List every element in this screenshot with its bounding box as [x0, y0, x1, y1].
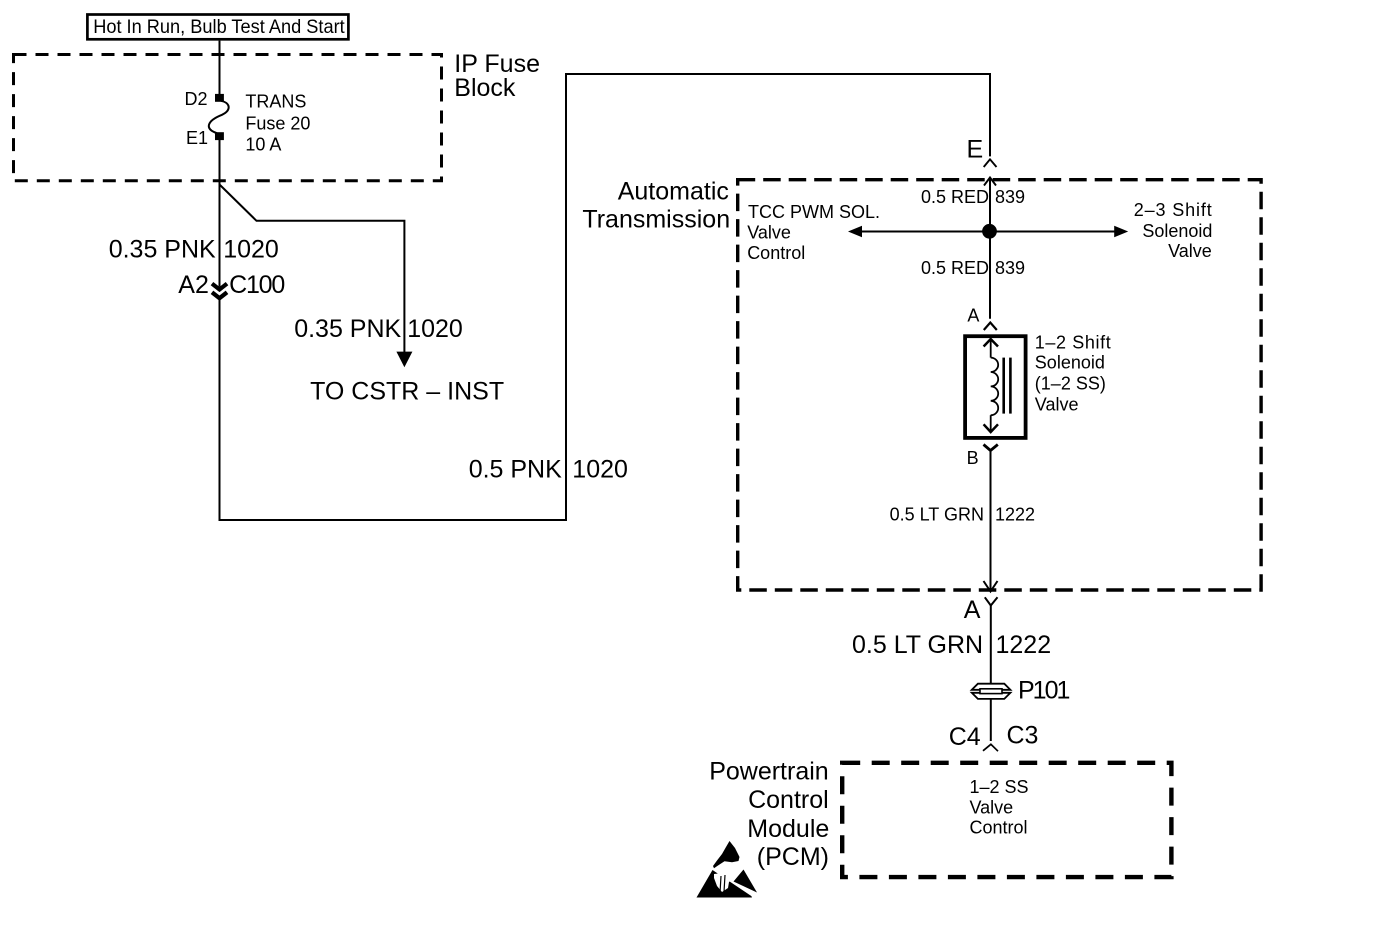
- svg-text:10 A: 10 A: [245, 135, 281, 155]
- svg-text:Valve: Valve: [970, 797, 1014, 817]
- svg-text:Control: Control: [748, 786, 829, 814]
- svg-text:Solenoid: Solenoid: [1035, 352, 1105, 372]
- svg-text:C100: C100: [229, 271, 284, 299]
- svg-text:A2: A2: [178, 271, 209, 299]
- svg-text:2–3 Shift: 2–3 Shift: [1134, 200, 1212, 220]
- svg-text:B: B: [967, 448, 979, 468]
- svg-text:Valve: Valve: [1035, 395, 1079, 415]
- svg-text:1222: 1222: [996, 631, 1052, 659]
- svg-text:1–2 Shift: 1–2 Shift: [1035, 333, 1111, 353]
- svg-text:TO CSTR – INST: TO CSTR – INST: [310, 377, 504, 405]
- svg-text:0.5 LT GRN: 0.5 LT GRN: [852, 631, 983, 659]
- svg-text:0.35 PNK: 0.35 PNK: [109, 235, 216, 263]
- svg-text:Control: Control: [970, 818, 1028, 838]
- svg-text:Control: Control: [747, 243, 805, 263]
- svg-text:Fuse 20: Fuse 20: [245, 113, 310, 133]
- svg-text:A: A: [967, 305, 979, 325]
- svg-text:E: E: [967, 135, 984, 163]
- svg-text:Transmission: Transmission: [582, 205, 730, 233]
- svg-text:Valve: Valve: [1168, 241, 1212, 261]
- svg-text:1020: 1020: [572, 456, 628, 484]
- svg-text:1020: 1020: [407, 315, 463, 343]
- svg-text:(1–2 SS): (1–2 SS): [1035, 373, 1106, 393]
- svg-text:(PCM): (PCM): [757, 843, 829, 871]
- svg-text:1–2 SS: 1–2 SS: [970, 777, 1029, 797]
- svg-text:839: 839: [995, 258, 1025, 278]
- svg-text:1222: 1222: [995, 504, 1035, 524]
- svg-text:C3: C3: [1007, 721, 1039, 749]
- svg-text:C4: C4: [949, 723, 981, 751]
- svg-text:Hot In Run, Bulb Test And Star: Hot In Run, Bulb Test And Start: [93, 17, 345, 38]
- svg-text:TRANS: TRANS: [245, 91, 306, 111]
- svg-text:Valve: Valve: [747, 223, 791, 243]
- svg-text:Module: Module: [747, 815, 829, 843]
- svg-text:A: A: [964, 596, 981, 624]
- svg-text:0.5 RED: 0.5 RED: [921, 187, 989, 207]
- svg-text:0.5 LT GRN: 0.5 LT GRN: [890, 504, 984, 524]
- svg-text:Automatic: Automatic: [618, 178, 729, 206]
- svg-text:P101: P101: [1018, 677, 1069, 705]
- svg-text:Powertrain: Powertrain: [709, 758, 829, 786]
- svg-text:Block: Block: [454, 74, 516, 102]
- svg-text:0.5 PNK: 0.5 PNK: [469, 456, 562, 484]
- svg-text:E1: E1: [186, 128, 208, 148]
- svg-text:Solenoid: Solenoid: [1142, 221, 1212, 241]
- svg-text:839: 839: [995, 187, 1025, 207]
- svg-text:D2: D2: [184, 89, 207, 109]
- svg-text:TCC PWM SOL.: TCC PWM SOL.: [748, 202, 880, 222]
- svg-text:0.5 RED: 0.5 RED: [921, 258, 989, 278]
- svg-text:0.35 PNK: 0.35 PNK: [294, 315, 401, 343]
- svg-text:1020: 1020: [223, 235, 279, 263]
